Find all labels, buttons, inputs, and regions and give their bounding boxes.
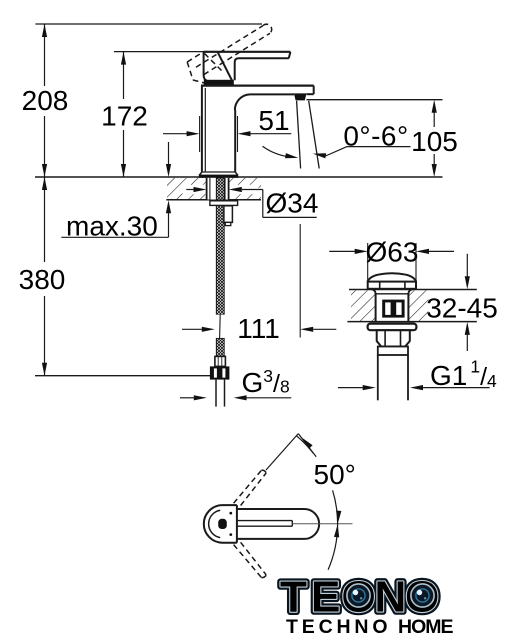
dimension G3/8 <box>180 397 195 399</box>
dimension 208 <box>44 24 46 86</box>
dimension 172 <box>123 52 125 99</box>
svg-text:Ø34: Ø34 <box>266 188 319 219</box>
water stream lines <box>297 101 301 169</box>
svg-text:TECHNO: TECHNO <box>286 616 389 638</box>
connection tail tube <box>215 380 217 407</box>
drain tailpiece <box>377 355 379 400</box>
top view centerline <box>292 523 352 525</box>
faucet body <box>201 84 314 86</box>
faucet handle lever (solid) <box>218 51 291 53</box>
dimension 51 <box>199 116 201 152</box>
extension line lever top (172 ref) <box>114 51 236 53</box>
svg-text:32-45: 32-45 <box>426 293 498 324</box>
top view outlet blob <box>218 519 227 529</box>
svg-text:208: 208 <box>22 85 69 116</box>
dimension max.30 leader <box>168 142 170 166</box>
TEONO logo <box>280 573 439 622</box>
mounting washer under deck <box>210 201 238 206</box>
svg-text:111: 111 <box>237 313 280 344</box>
top view lever <box>237 509 319 539</box>
countertop section (hatched) right <box>349 289 477 291</box>
dimension 32-45 <box>466 254 468 277</box>
bottom extension line (380 ref) <box>35 375 216 377</box>
overflow slot body <box>382 300 404 318</box>
drain collar <box>378 347 408 356</box>
dimension G1 1/4 <box>338 387 364 389</box>
top view dashed lever down 50 deg <box>234 542 267 577</box>
dimension 105 <box>307 99 443 101</box>
drain cap dome <box>368 273 416 281</box>
supply hose (crosshatched) <box>216 178 224 315</box>
drain lock nut <box>377 330 410 346</box>
dimension 111 <box>182 328 203 330</box>
faucet base flare <box>202 171 235 173</box>
drain body through deck <box>375 293 377 322</box>
drain cap rim <box>368 282 416 289</box>
countertop section (hatched) left <box>167 178 261 199</box>
hose end ferrule <box>215 356 226 366</box>
faucet handle lever (dashed raised position) <box>187 24 271 83</box>
dimension 380 <box>44 177 46 262</box>
top view lever slot <box>238 520 293 522</box>
extension line top (208 ref, dashed lever tip) <box>35 23 262 25</box>
svg-text:172: 172 <box>101 101 148 132</box>
handle base shadow band <box>204 80 234 85</box>
dimension Ø34 <box>186 189 195 191</box>
drain flange washer <box>368 324 417 331</box>
svg-text:HOME: HOME <box>398 616 455 638</box>
handle cartridge cap <box>204 51 218 53</box>
top view screw dots <box>229 512 232 515</box>
dimension Ø63 <box>367 243 369 281</box>
hose connection nut G3/8 <box>210 366 230 379</box>
svg-text:51: 51 <box>258 105 289 136</box>
angle 50 deg rays and arc <box>266 434 298 470</box>
aerator outlet <box>294 93 307 100</box>
countertop line <box>35 176 443 178</box>
svg-text:50°: 50° <box>314 459 356 490</box>
svg-text:T: T <box>280 573 307 622</box>
top view escutcheon (round base) <box>204 505 237 543</box>
mounting stud fitting <box>224 206 233 223</box>
svg-text:N: N <box>375 573 407 622</box>
svg-text:E: E <box>311 573 340 622</box>
svg-text:Ø63: Ø63 <box>366 237 419 268</box>
threaded shank through deck <box>206 178 229 200</box>
top view dashed lever up 50 deg <box>234 470 267 505</box>
angle 0-6 deg arc and leader <box>263 146 295 157</box>
svg-text:0°-6°: 0°-6° <box>343 120 408 151</box>
svg-text:max.30: max.30 <box>66 210 158 241</box>
svg-text:380: 380 <box>19 264 66 295</box>
svg-text:105: 105 <box>411 126 458 157</box>
hose break line <box>216 315 225 339</box>
